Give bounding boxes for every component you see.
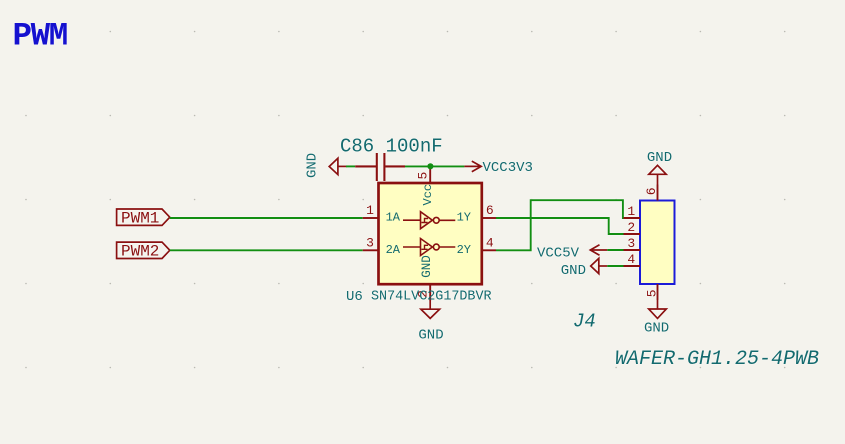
svg-text:6: 6 [644, 187, 659, 195]
hierarchical label PWM1 [117, 209, 170, 228]
J4 pin 5 (bottom) [645, 284, 660, 300]
svg-text:U6: U6 [346, 289, 363, 305]
U6 pin 5 (Vcc top) [416, 166, 431, 183]
power GND below U6 [418, 301, 443, 344]
svg-text:GND: GND [418, 327, 443, 343]
svg-text:1A: 1A [386, 211, 401, 225]
svg-text:J4: J4 [573, 311, 596, 333]
wire C86 to VCC3V3 [405, 165, 464, 167]
wire U6 2Y to J4 pin 1 [496, 200, 624, 250]
svg-text:3: 3 [366, 236, 374, 251]
power GND above J4 [647, 150, 672, 185]
junction [427, 163, 433, 169]
svg-text:GND: GND [420, 255, 434, 278]
wire PWM2 to U6 pin 3 [170, 249, 363, 251]
IC U6 SN74LVC2G17DBVR [346, 166, 496, 305]
svg-text:GND: GND [647, 150, 672, 166]
wire VCC5V to J4 pin 3 [607, 249, 623, 251]
power GND at capacitor left [305, 153, 347, 178]
svg-text:1: 1 [366, 203, 374, 218]
U6 pin 2 (GND bottom) [416, 284, 431, 301]
svg-text:2Y: 2Y [457, 243, 471, 257]
U6 pin 3 (2A) [363, 236, 379, 251]
svg-text:C86 100nF: C86 100nF [340, 136, 443, 158]
power VCC5V [537, 245, 607, 261]
U6 pin 6 (1Y) [482, 203, 496, 218]
svg-text:GND: GND [561, 263, 586, 279]
buffer symbol 1 [403, 212, 455, 229]
hierarchical label PWM2 [117, 242, 170, 261]
svg-text:SN74LVC2G17DBVR: SN74LVC2G17DBVR [371, 289, 492, 304]
connector J4 WAFER-GH1.25-4PWB [573, 185, 819, 371]
svg-text:3: 3 [627, 236, 635, 251]
power GND below J4 [644, 300, 669, 337]
svg-text:VCC3V3: VCC3V3 [483, 160, 533, 176]
J4 pin 3 [624, 236, 641, 251]
svg-text:1: 1 [627, 204, 635, 219]
svg-text:GND: GND [644, 321, 669, 337]
wire GND to J4 pin 4 [607, 265, 623, 267]
svg-text:Vcc: Vcc [421, 184, 435, 206]
U6 pin 1 (1A) [363, 203, 379, 218]
svg-text:PWM2: PWM2 [121, 243, 159, 261]
power VCC3V3 [464, 160, 533, 176]
J4 pin 2 [624, 220, 641, 235]
J4 pin 4 [624, 252, 641, 267]
power GND at J4 pin 4 [561, 258, 608, 279]
svg-text:1Y: 1Y [457, 211, 471, 225]
J4 pin 6 (top) [644, 185, 659, 201]
wire U6 1Y to J4 pin 2 [496, 218, 624, 234]
wire GND to C86 [346, 165, 355, 167]
svg-text:PWM1: PWM1 [121, 210, 159, 228]
svg-text:VCC5V: VCC5V [537, 245, 580, 261]
svg-text:WAFER-GH1.25-4PWB: WAFER-GH1.25-4PWB [615, 348, 819, 371]
svg-text:5: 5 [416, 172, 431, 180]
svg-text:PWM: PWM [13, 18, 67, 55]
wire PWM1 to U6 pin 1 [170, 217, 363, 219]
buffer symbol 2 [403, 239, 455, 256]
svg-text:5: 5 [645, 289, 660, 297]
U6 pin 4 (2Y) [482, 236, 496, 251]
capacitor C86 100nF [340, 136, 443, 181]
svg-text:GND: GND [305, 153, 321, 178]
J4 pin 1 [624, 204, 641, 219]
svg-text:2: 2 [627, 220, 635, 235]
svg-text:4: 4 [486, 236, 494, 251]
svg-text:2A: 2A [386, 243, 401, 257]
svg-text:4: 4 [627, 252, 635, 267]
svg-text:6: 6 [486, 203, 494, 218]
